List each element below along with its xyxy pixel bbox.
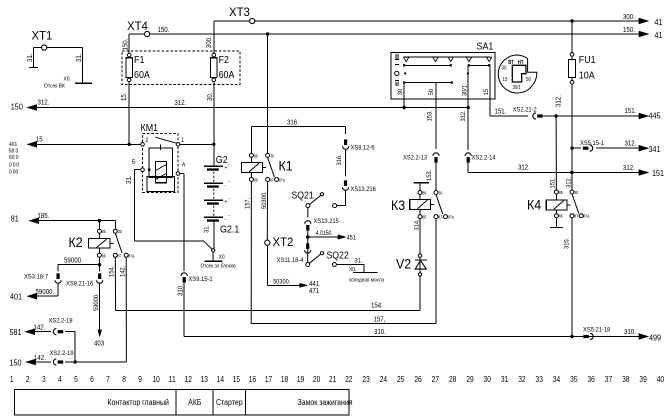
svg-text:86: 86 <box>559 213 564 219</box>
svg-text:445: 445 <box>649 111 662 121</box>
wire 31 from KM1-B to battery ground <box>134 169 140 171</box>
svg-text:59000.: 59000. <box>36 288 55 296</box>
svg-text:Х0.: Х0. <box>349 266 356 272</box>
svg-text:312.: 312. <box>175 99 187 107</box>
svg-text:151: 151 <box>652 168 664 178</box>
wire F1 down to 15 line <box>128 82 130 145</box>
relay К3 terminal 85 <box>418 215 422 219</box>
relay К4 terminal 87а <box>579 214 583 218</box>
svg-text:0: 0 <box>16 148 19 154</box>
relay К1 terminal 87 <box>266 178 270 182</box>
svg-text:151.: 151. <box>495 108 507 116</box>
svg-text:312.: 312. <box>459 110 467 121</box>
relay К1 terminal 87а <box>275 178 279 182</box>
switch SA1 terminal 15 stem <box>489 65 491 116</box>
wire SQ22 right to ground <box>336 264 364 266</box>
svg-text:": " <box>229 196 231 201</box>
svg-text:86: 86 <box>102 253 107 259</box>
svg-text:581: 581 <box>10 327 22 337</box>
svg-text:300.: 300. <box>205 36 213 48</box>
svg-text:АКБ: АКБ <box>188 397 201 407</box>
svg-text:310.: 310. <box>624 329 636 337</box>
svg-text:18: 18 <box>281 374 288 384</box>
contactor KM1 terminal 1 <box>176 143 180 147</box>
svg-text:XS13.216: XS13.216 <box>351 186 377 194</box>
svg-text:14: 14 <box>217 374 224 384</box>
connector XS13.215 <box>305 221 311 224</box>
switch SA1 box <box>391 53 495 100</box>
svg-text:8: 8 <box>122 374 126 384</box>
wire F2 down to battery junction <box>213 82 215 145</box>
contactor KM1 inner frame upper <box>149 148 173 178</box>
svg-text:F2: F2 <box>219 55 229 67</box>
wire SQ21 left down to XS13.215 <box>307 208 309 218</box>
switch SA1 contact row 4 <box>404 82 452 84</box>
relay К2 terminal 87а <box>124 253 128 257</box>
svg-text:31: 31 <box>501 374 508 384</box>
switch SA1 terminal 30/1 stem <box>467 65 469 150</box>
svg-text:157.: 157. <box>244 198 252 209</box>
svg-text:-: - <box>225 182 227 188</box>
wire 185 to K2-30 <box>114 221 116 230</box>
bolt terminal X0 battery <box>212 249 215 252</box>
relay К3 contact blade <box>436 195 443 215</box>
switch SA1 position marks <box>395 54 399 56</box>
svg-text:142.: 142. <box>119 266 127 277</box>
svg-text:V2: V2 <box>396 256 411 272</box>
svg-text:39: 39 <box>639 374 646 384</box>
relay К4 contact blade <box>572 194 579 213</box>
svg-text:SQ21: SQ21 <box>292 190 314 202</box>
svg-text:XT2: XT2 <box>273 236 294 249</box>
wire 310 bus <box>184 336 647 338</box>
svg-text:10: 10 <box>152 374 159 384</box>
svg-text:150: 150 <box>10 358 23 368</box>
wire XS8.12-6 drop from 316 <box>345 126 347 134</box>
junction 310/K4-87 <box>570 335 573 338</box>
svg-text:26: 26 <box>414 374 421 384</box>
svg-text:154.: 154. <box>108 266 116 277</box>
wire K4-87 down to 310 bus <box>571 218 573 337</box>
svg-text:К4: К4 <box>527 197 541 213</box>
wire 142 line to 150 arrow <box>65 361 126 363</box>
svg-text:185.: 185. <box>38 213 50 221</box>
ground below K4-86 <box>555 218 557 228</box>
svg-text:87: 87 <box>574 213 579 219</box>
svg-text:К2: К2 <box>69 235 83 251</box>
battery G2 <box>213 144 215 166</box>
junction 312/SA1-30 <box>403 106 406 109</box>
svg-text:+: + <box>225 199 228 205</box>
junction KM1 B internal <box>148 168 151 171</box>
svg-text:0: 0 <box>13 162 16 168</box>
svg-text:23: 23 <box>362 374 369 384</box>
svg-text:81: 81 <box>11 214 19 224</box>
wire 310 from KM1-A down <box>180 173 184 175</box>
connector XS5.15-1 <box>583 147 589 150</box>
svg-text:Замок зажигания: Замок зажигания <box>298 397 353 407</box>
relay К4 terminal 86 <box>554 214 558 218</box>
relay К1 terminal 86 <box>249 178 253 182</box>
svg-text:": " <box>229 213 231 218</box>
wire 312 main line <box>28 107 468 109</box>
wire 316 line <box>251 125 345 127</box>
svg-text:153.: 153. <box>426 110 434 121</box>
junction FU1 wire / XS5.15-1 line <box>570 147 573 150</box>
connector XS11.18-4 <box>306 243 309 249</box>
svg-text:50300.: 50300. <box>273 278 290 286</box>
svg-text:30/1: 30/1 <box>513 85 522 90</box>
svg-text:9: 9 <box>138 374 142 384</box>
wire XT3 to F2 <box>214 20 250 22</box>
ground bar X0 Otsek VK <box>75 82 92 84</box>
svg-text:Отсек эл.блоков: Отсек эл.блоков <box>201 263 237 269</box>
fuse box dashed outline <box>122 51 240 85</box>
svg-text:60A: 60A <box>219 69 235 81</box>
svg-text:XS2.2-19: XS2.2-19 <box>50 350 75 358</box>
svg-text:XS2.21-2: XS2.21-2 <box>513 106 538 114</box>
svg-text:XT4: XT4 <box>127 20 148 33</box>
svg-text:XS5.15-1: XS5.15-1 <box>580 140 605 148</box>
svg-text:36: 36 <box>587 374 594 384</box>
svg-text:XS2.2-14: XS2.2-14 <box>472 154 497 162</box>
wire 59000 to 401 <box>28 295 58 297</box>
relay К3 terminal 30 <box>434 191 438 195</box>
fuse F2 <box>212 53 216 57</box>
svg-text:451: 451 <box>347 234 357 242</box>
svg-text:30: 30 <box>574 190 579 196</box>
wire to XS3.18-7 <box>58 264 100 266</box>
svg-text:87а: 87а <box>583 213 590 219</box>
svg-text:312.: 312. <box>565 177 573 188</box>
wire XT2 down to 50300 arrow <box>266 245 268 285</box>
wire SA1-15 to 151 line <box>490 115 528 117</box>
svg-text:27: 27 <box>432 374 439 384</box>
svg-text:24: 24 <box>380 374 387 384</box>
svg-text:0: 0 <box>9 169 12 175</box>
wire KM1-1 to battery junction <box>180 143 214 145</box>
svg-text:16: 16 <box>249 374 256 384</box>
svg-text:НТ: НТ <box>518 59 524 64</box>
connector XS2.2-19 <box>53 359 56 365</box>
bar above K3-86 <box>419 183 421 191</box>
junction 150/K1 wire <box>266 32 269 35</box>
relay К4 terminal 30 <box>570 190 574 194</box>
svg-text:2: 2 <box>26 374 30 384</box>
svg-text:30: 30 <box>396 88 404 95</box>
svg-text:15: 15 <box>483 88 491 95</box>
svg-text:31.: 31. <box>126 175 134 184</box>
svg-text:15.: 15. <box>36 136 45 144</box>
junction 312/SA1-30-1 <box>467 106 470 109</box>
svg-text:341: 341 <box>649 144 661 154</box>
svg-text:58: 58 <box>9 148 14 154</box>
svg-text:85: 85 <box>422 214 427 220</box>
contactor KM1 terminal B <box>141 168 145 172</box>
svg-text:50300.: 50300. <box>261 191 269 209</box>
svg-text:A: A <box>182 162 186 168</box>
svg-text:41: 41 <box>655 17 663 27</box>
svg-text:-: - <box>225 216 227 222</box>
svg-text:15.: 15. <box>120 92 128 101</box>
svg-text:31.: 31. <box>203 225 211 233</box>
connector XS5.21-18 <box>583 335 589 338</box>
svg-text:60: 60 <box>9 155 14 161</box>
svg-text:22: 22 <box>345 374 352 384</box>
svg-text:151.: 151. <box>549 177 557 188</box>
svg-text:КМ1: КМ1 <box>141 122 159 134</box>
key face detail circle <box>498 55 537 93</box>
svg-text:13: 13 <box>201 374 208 384</box>
svg-text:XS2.2-13: XS2.2-13 <box>403 154 428 162</box>
svg-text:XS11.18-4: XS11.18-4 <box>277 256 304 264</box>
terminal XT1 <box>42 45 47 50</box>
svg-text:157,: 157, <box>374 316 386 324</box>
contactor KM1 terminal A <box>176 172 180 176</box>
contactor KM1 inner frame lower <box>147 176 175 191</box>
svg-text:XS5.21-18: XS5.21-18 <box>583 326 611 334</box>
connector XS9.15-1 <box>181 273 187 276</box>
svg-text:": " <box>229 162 231 167</box>
wire to XS13.216 <box>345 150 347 177</box>
svg-text:28: 28 <box>449 374 456 384</box>
svg-text:XS3.18-7: XS3.18-7 <box>24 273 49 281</box>
connector XS2.2-18 <box>53 329 56 335</box>
svg-text:1: 1 <box>10 374 14 384</box>
wire 581 branch <box>74 332 76 362</box>
relay К2 terminal 87 <box>113 253 117 257</box>
wire 15 line to KM1 <box>28 143 141 145</box>
key profile inside circle <box>512 65 526 82</box>
switch SA1 contact row 2 <box>404 64 451 66</box>
svg-text:XS8.21-16: XS8.21-16 <box>66 280 94 288</box>
svg-text:40: 40 <box>657 374 664 384</box>
wire XT4 to F1 <box>129 33 144 35</box>
svg-text:150.: 150. <box>158 26 170 34</box>
svg-text:87а: 87а <box>279 177 286 183</box>
svg-text:20: 20 <box>313 374 320 384</box>
svg-text:150: 150 <box>11 102 24 112</box>
svg-text:21: 21 <box>329 374 336 384</box>
svg-text:31.: 31. <box>355 257 363 265</box>
svg-text:154.: 154. <box>371 302 383 310</box>
junction 4.0150 branch <box>306 235 309 238</box>
switch SA1 contact row 1 <box>404 56 490 58</box>
svg-text:142.: 142. <box>34 354 46 362</box>
svg-text:10A: 10A <box>579 70 595 82</box>
connector XS2.2-14 <box>465 153 471 156</box>
svg-text:153.: 153. <box>426 170 434 181</box>
svg-text:0: 0 <box>16 155 19 161</box>
svg-text:50: 50 <box>526 76 531 82</box>
svg-text:314.: 314. <box>413 219 421 230</box>
relay К2 coil <box>89 239 111 249</box>
svg-text:4: 4 <box>58 374 62 384</box>
svg-text:FU1: FU1 <box>579 55 596 67</box>
svg-text:6: 6 <box>90 374 94 384</box>
junction battery top <box>212 143 215 146</box>
wire XT1 right leg <box>47 47 83 49</box>
fuse F1 <box>127 53 131 57</box>
svg-text:34: 34 <box>553 374 560 384</box>
contactor KM1 terminal 2 <box>141 143 145 147</box>
legend table <box>14 389 349 414</box>
wire battery to ground bolt <box>213 222 215 249</box>
svg-text:150.: 150. <box>623 26 635 34</box>
wire XS5.15-1 to right edge 341 <box>572 147 581 149</box>
wire K1-86 down to 157 bus <box>250 182 252 324</box>
svg-text:00: 00 <box>13 169 18 175</box>
junction 142/581 branch <box>74 360 77 363</box>
svg-text:85: 85 <box>254 153 259 159</box>
relay К2 terminal 30 <box>113 229 117 233</box>
wire 154 bus <box>116 310 421 312</box>
svg-text:312.: 312. <box>623 164 635 172</box>
terminal XT3 <box>250 18 255 23</box>
svg-text:30/1: 30/1 <box>461 85 469 97</box>
wire K1-87 to XT2 <box>266 182 268 241</box>
wire 185 line <box>30 220 115 222</box>
switch SA1 terminal 50 stem <box>435 83 437 149</box>
wire XT1 left leg <box>33 47 41 49</box>
svg-text:87: 87 <box>438 214 443 220</box>
contactor KM1 coil <box>155 161 166 182</box>
svg-text:35: 35 <box>570 374 577 384</box>
terminal XT2 <box>265 240 270 245</box>
svg-text:59000.: 59000. <box>93 293 101 311</box>
svg-text:316.: 316. <box>287 119 299 127</box>
svg-text:30: 30 <box>502 65 507 71</box>
svg-text:87: 87 <box>118 253 123 259</box>
relay К1 terminal 30 <box>266 153 270 157</box>
svg-text:2: 2 <box>146 137 149 143</box>
relay К2 terminal 86 <box>97 253 101 257</box>
svg-text:401: 401 <box>10 292 22 302</box>
svg-text:32: 32 <box>518 374 525 384</box>
wire K1-85 riser <box>250 126 252 153</box>
svg-text:15: 15 <box>233 374 240 384</box>
svg-text:": " <box>229 179 231 184</box>
connector XS13.216 <box>344 180 347 186</box>
contactor KM1 dashed box <box>143 134 179 193</box>
svg-text:+: + <box>225 165 228 171</box>
junction 151/K4-85 <box>554 114 557 117</box>
svg-text:30: 30 <box>438 190 443 196</box>
svg-text:Х0.: Х0. <box>64 76 71 82</box>
svg-text:15: 15 <box>503 76 508 82</box>
wire 300 line from XT3 to right edge <box>255 20 648 22</box>
relay К1 terminal 85 <box>249 153 253 157</box>
svg-text:Б: Б <box>132 159 136 165</box>
svg-text:17: 17 <box>265 374 272 384</box>
svg-text:150.: 150. <box>122 38 130 50</box>
junction K2-86 split <box>98 263 101 266</box>
wire K2-86 down <box>98 257 100 264</box>
svg-text:312.: 312. <box>38 99 50 107</box>
svg-text:87а: 87а <box>128 253 135 259</box>
wire K3-87 down to 157 bus <box>435 219 437 324</box>
fuse FU1 feed <box>571 21 573 53</box>
svg-text:SQ22: SQ22 <box>327 250 349 262</box>
svg-text:Х0.: Х0. <box>219 254 226 260</box>
wire K2-87 down to 154 bus <box>114 257 116 310</box>
relay К2 terminal 85 <box>97 229 101 233</box>
svg-text:29: 29 <box>466 374 473 384</box>
relay К3 terminal 86 <box>418 191 422 195</box>
connector XS8.12-6 <box>344 139 347 145</box>
svg-text:SA1: SA1 <box>477 41 494 53</box>
svg-text:холодная мохла: холодная мохла <box>349 277 384 283</box>
svg-text:33: 33 <box>536 374 543 384</box>
svg-text:151.: 151. <box>625 108 637 116</box>
svg-text:310.: 310. <box>177 284 185 296</box>
connector XS2.21-2 <box>533 113 536 119</box>
svg-text:Стартер: Стартер <box>216 397 243 407</box>
svg-text:60A: 60A <box>134 69 150 81</box>
terminal XT4 <box>145 31 150 36</box>
svg-text:Контактор главный: Контактор главный <box>108 397 169 407</box>
svg-text:41: 41 <box>655 30 663 40</box>
wire K4-85 drop <box>555 116 557 190</box>
svg-text:25: 25 <box>397 374 404 384</box>
svg-text:38: 38 <box>622 374 629 384</box>
arrow down 403 <box>98 330 101 336</box>
svg-text:471: 471 <box>309 287 319 295</box>
svg-text:0: 0 <box>9 162 12 168</box>
svg-text:11: 11 <box>169 374 176 384</box>
svg-text:310.: 310. <box>563 238 571 249</box>
svg-text:7: 7 <box>106 374 110 384</box>
svg-text:5: 5 <box>74 374 78 384</box>
svg-text:XS9.15-1: XS9.15-1 <box>189 276 214 284</box>
junction 15/F1 <box>128 143 131 146</box>
relay К3 terminal 87 <box>434 215 438 219</box>
wire K3-85 to V2 <box>419 219 421 254</box>
relay К4 terminal 87 <box>570 214 574 218</box>
svg-text:312.: 312. <box>625 140 637 148</box>
svg-text:499: 499 <box>649 333 661 343</box>
svg-text:31.: 31. <box>76 53 84 62</box>
svg-text:К1: К1 <box>279 158 293 174</box>
svg-text:XT1: XT1 <box>32 29 53 42</box>
svg-text:85: 85 <box>102 229 107 235</box>
svg-text:XS2.2-18: XS2.2-18 <box>49 317 74 325</box>
svg-text:30.: 30. <box>207 92 215 101</box>
svg-text:86: 86 <box>422 190 427 196</box>
svg-text:К3: К3 <box>391 198 405 214</box>
wire V2 down to 154 bus <box>419 276 421 311</box>
svg-text:Отсек ВК: Отсек ВК <box>44 83 66 89</box>
wire to SQ21 right <box>345 191 347 206</box>
svg-text:30: 30 <box>270 153 275 159</box>
wire 312 bus <box>468 172 647 174</box>
svg-text:59000.: 59000. <box>64 257 83 265</box>
switch SA1 contact row 3 dots <box>404 72 406 74</box>
wire 157 bus <box>251 323 436 325</box>
svg-text:50: 50 <box>428 88 436 95</box>
wire 150 line from XT4 to right edge <box>150 33 648 35</box>
svg-text:310.: 310. <box>374 329 386 337</box>
svg-text:3: 3 <box>42 374 46 384</box>
svg-text:XT3: XT3 <box>229 6 250 19</box>
junction 312 bus / FU1 wire <box>570 171 573 174</box>
wire XS8.21-16 drop <box>99 265 101 272</box>
svg-text:87а: 87а <box>448 214 455 220</box>
wire 4.0150 to 451 <box>308 236 345 238</box>
svg-text:30: 30 <box>118 229 123 235</box>
fuse FU1 <box>570 53 574 57</box>
svg-text:85: 85 <box>559 190 564 196</box>
